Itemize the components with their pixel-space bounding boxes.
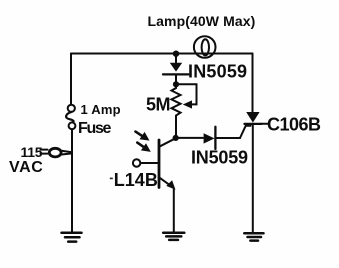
diode D2 1N5059 horizontal xyxy=(215,126,250,149)
svg-text:IN5059: IN5059 xyxy=(191,148,248,168)
svg-text:1 Amp: 1 Amp xyxy=(81,102,121,117)
wire emitter to ground xyxy=(173,189,175,232)
ground middle xyxy=(163,233,184,240)
SCR arrow xyxy=(246,112,259,123)
plug P1 115 VAC xyxy=(41,148,72,157)
svg-text:Lamp(40W Max): Lamp(40W Max) xyxy=(148,13,256,29)
wire junction to diode D2 xyxy=(176,137,203,139)
diode D2 arrow xyxy=(204,133,215,143)
wire right vertical (anode of SCR) xyxy=(252,54,254,113)
light arrowhead lower xyxy=(141,143,151,152)
pot wiper arrowhead xyxy=(183,100,192,108)
junction dot top wire xyxy=(173,51,179,57)
svg-text:IN5059: IN5059 xyxy=(188,62,247,82)
light arrow lower xyxy=(137,143,144,148)
tick before L14B xyxy=(110,178,113,180)
diode D1 arrow xyxy=(170,63,182,72)
ground left xyxy=(62,233,82,242)
svg-text:115: 115 xyxy=(21,144,43,160)
svg-text:VAC: VAC xyxy=(9,159,43,176)
wire top horizontal xyxy=(71,53,253,55)
svg-text:C106B: C106B xyxy=(267,115,321,135)
potentiometer R1 5M wiper loop xyxy=(176,84,197,104)
light arrow upper xyxy=(136,132,143,137)
SCR Q2 C106B xyxy=(245,124,268,233)
emitter arrowhead xyxy=(166,180,175,190)
svg-text:5M: 5M xyxy=(146,95,170,115)
wire left vertical lower xyxy=(71,129,73,232)
lamp DS1 xyxy=(194,36,216,58)
light arrowhead upper xyxy=(140,132,150,141)
potentiometer R1 5M body xyxy=(172,84,181,118)
svg-text:Fuse: Fuse xyxy=(78,120,112,137)
svg-text:L14B: L14B xyxy=(114,170,158,190)
junction dot below D1 xyxy=(173,81,179,87)
junction dot collector node xyxy=(173,135,179,141)
ground right xyxy=(244,233,263,240)
wire pot to junction xyxy=(175,119,177,138)
wire left vertical upper xyxy=(70,54,72,105)
diode D1 1N5059 vertical xyxy=(163,56,189,84)
phototransistor Q1 L14B xyxy=(133,138,176,187)
fuse F1 1 Amp xyxy=(66,105,75,129)
